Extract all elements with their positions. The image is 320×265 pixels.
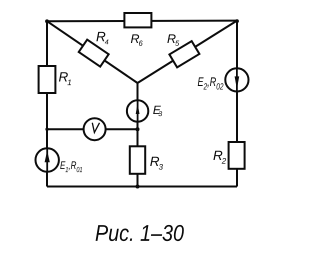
junction dot voltmeter wire at left branch xyxy=(45,128,48,131)
resistor R5 xyxy=(169,41,199,67)
wire top (node A to node B) xyxy=(47,20,237,23)
label E1,R01 xyxy=(60,161,82,172)
resistor R4 xyxy=(79,40,109,67)
label R4 xyxy=(96,32,108,44)
node B (top-right junction dot) xyxy=(235,19,239,23)
junction dot voltmeter wire at center branch xyxy=(136,127,140,131)
resistor R3 xyxy=(130,146,145,174)
wire left branch (node A down to bottom-left corner) xyxy=(46,21,48,186)
label R2 xyxy=(213,151,226,164)
EMF source E2 (circle, arrow down) xyxy=(225,68,248,91)
wire diagonal node B to center node C xyxy=(138,21,238,83)
resistor R1 xyxy=(39,66,56,93)
junction dot R3 at bottom wire xyxy=(136,185,140,189)
caption Puc. 1-30 xyxy=(96,225,184,241)
label R6 xyxy=(131,34,143,45)
EMF source E3 (circle, arrow up) xyxy=(127,100,148,121)
label E3 xyxy=(153,106,162,116)
resistor R2 xyxy=(229,142,245,169)
wire center vertical (node C down to bottom wire) xyxy=(137,83,139,188)
node A (top-left junction dot) xyxy=(45,19,49,23)
label R5 xyxy=(167,34,179,45)
wire diagonal node A to center node C xyxy=(47,21,138,83)
wire bottom (bottom-left to bottom-right corner) xyxy=(47,186,237,188)
label E2,R02 xyxy=(198,77,224,89)
EMF source E1 (circle, arrow up) xyxy=(36,148,59,171)
voltmeter V xyxy=(84,118,106,140)
wire voltmeter branch xyxy=(47,128,138,130)
label R3 xyxy=(150,157,163,170)
label R1 xyxy=(59,72,71,85)
wire right branch (node B down to bottom-right corner) xyxy=(236,21,238,187)
resistor R6 xyxy=(124,13,151,27)
